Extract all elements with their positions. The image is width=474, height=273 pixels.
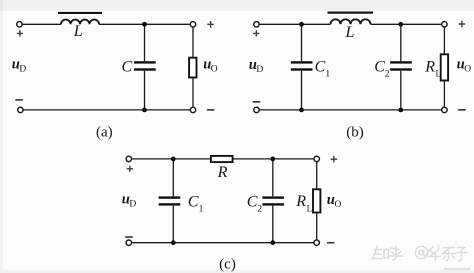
junction node C1 bottom (b) — [299, 108, 304, 113]
load resistor RL box (b) — [441, 54, 448, 80]
left edge gray strip — [0, 0, 3, 273]
svg-text:2: 2 — [257, 205, 262, 215]
svg-text:(b): (b) — [346, 125, 364, 141]
junction node C2 top (c) — [270, 157, 275, 162]
svg-text:1: 1 — [199, 205, 204, 215]
svg-text:D: D — [256, 65, 263, 75]
capacitor C1 (c) lead wires — [172, 159, 174, 243]
wire bottom rail (c) — [132, 242, 317, 244]
polarity + sign right (a) — [207, 21, 214, 28]
terminal − input (b) open circle — [254, 107, 259, 112]
inductor L (a) coil — [61, 20, 99, 25]
svg-text:D: D — [129, 200, 136, 210]
svg-text:R: R — [424, 58, 435, 75]
svg-text:C: C — [247, 193, 258, 210]
svg-text:O: O — [211, 65, 218, 75]
polarity − sign left (c) — [125, 236, 133, 238]
series resistor R box (c) — [211, 156, 233, 162]
terminal + output (b) open circle — [442, 22, 447, 27]
wire bottom rail (b) — [259, 109, 444, 111]
terminal + output (c) open circle — [314, 156, 319, 161]
inductor L (a) core bar — [58, 12, 102, 14]
junction node C bottom (a) — [142, 108, 147, 113]
svg-text:L: L — [436, 68, 442, 78]
capacitor C (a) top lead wire — [144, 24, 146, 61]
svg-text:R: R — [295, 193, 306, 210]
inductor L (b) core bar — [328, 12, 374, 14]
capacitor C2 (b) lead wires — [400, 24, 402, 110]
terminal + input (b) open circle — [254, 22, 259, 27]
junction node C2 bottom (c) — [270, 240, 275, 245]
capacitor C2 (c) lead wires — [272, 159, 274, 243]
top-left corner darker patch — [0, 0, 3, 11]
junction node C1 top (c) — [171, 157, 176, 162]
terminal − output (c) open circle — [314, 240, 319, 245]
svg-text:R: R — [217, 164, 228, 181]
polarity + sign left (c) — [127, 166, 133, 172]
top gray band — [0, 0, 474, 11]
terminal − output (b) open circle — [442, 107, 447, 112]
wire top rail circuit (c) — [132, 158, 317, 160]
capacitor C2 (c) plates — [262, 196, 284, 198]
svg-text:C: C — [188, 193, 199, 210]
capacitor C (a) plates — [134, 61, 156, 63]
junction node C1 top (b) — [299, 22, 304, 27]
svg-text:C: C — [122, 58, 133, 75]
svg-text:(a): (a) — [96, 125, 113, 141]
terminal + input (c) open circle — [126, 156, 131, 161]
capacitor C1 (c) plates — [159, 196, 181, 198]
svg-text:C: C — [315, 59, 326, 76]
capacitor C2 (b) plates — [390, 61, 412, 63]
junction node C2 top (b) — [398, 22, 403, 27]
load branch wires (a) — [192, 27, 194, 107]
terminal − output (a) open circle — [190, 107, 195, 112]
terminal + output (a) open circle — [190, 22, 195, 27]
watermark small url text — [444, 268, 471, 270]
load branch wires (c) — [316, 162, 318, 240]
svg-text:O: O — [335, 200, 342, 210]
wire bottom rail (a) — [23, 109, 193, 111]
polarity − sign left (a) — [15, 99, 22, 101]
terminal + input (a) open circle — [17, 22, 22, 27]
capacitor C (a) bottom lead wire — [144, 71, 146, 110]
load resistor RL box (c) — [313, 189, 320, 212]
load branch wires (b) — [443, 27, 445, 107]
svg-text:(c): (c) — [219, 256, 236, 272]
polarity + sign right (c) — [331, 156, 338, 163]
polarity − sign right (b) — [458, 109, 466, 111]
wire top rail circuit (b) — [259, 23, 444, 25]
junction node C1 bottom (c) — [171, 240, 176, 245]
wire top rail circuit (a) — [22, 23, 193, 25]
terminal − input (c) open circle — [126, 240, 131, 245]
polarity − sign right (c) — [327, 242, 335, 244]
load resistor box (a) — [189, 58, 196, 78]
polarity − sign left (b) — [253, 101, 261, 103]
junction node C top (a) — [142, 22, 147, 27]
inductor L (b) coil — [331, 19, 371, 24]
svg-text:L: L — [73, 23, 83, 40]
bottom edge gray strip — [0, 270, 474, 273]
svg-text:1: 1 — [325, 70, 330, 80]
svg-text:L: L — [345, 24, 355, 41]
svg-text:D: D — [19, 65, 26, 75]
svg-text:2: 2 — [385, 70, 390, 80]
svg-text:L: L — [307, 203, 313, 213]
svg-text:O: O — [464, 65, 471, 75]
polarity + sign left (a) — [17, 30, 23, 36]
polarity + sign left (b) — [253, 30, 259, 36]
capacitor C1 (b) plates — [291, 61, 313, 63]
terminal − input (a) open circle — [18, 107, 23, 112]
polarity + sign right (b) — [459, 21, 466, 28]
polarity − sign right (a) — [207, 109, 215, 111]
watermark zhihu @huadongzi — [372, 246, 468, 261]
junction node C2 bottom (b) — [398, 108, 403, 113]
capacitor C1 (b) lead wires — [301, 24, 303, 110]
svg-text:C: C — [374, 59, 385, 76]
